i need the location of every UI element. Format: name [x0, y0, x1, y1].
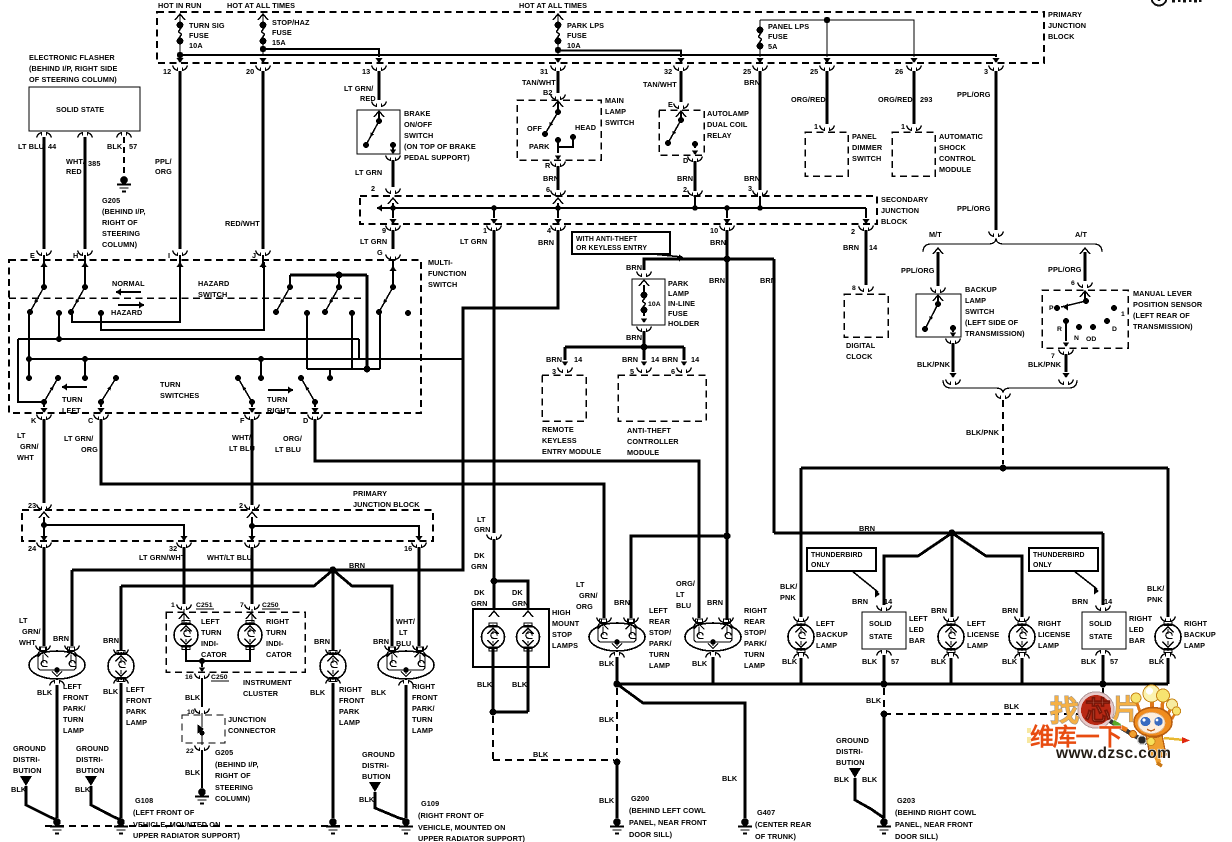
svg-text:BRN: BRN: [859, 524, 875, 533]
svg-text:10A: 10A: [567, 41, 581, 50]
secondary junction block: [360, 196, 877, 224]
svg-text:TURN: TURN: [412, 715, 433, 724]
svg-text:GRN/: GRN/: [579, 591, 598, 600]
svg-text:HOLDER: HOLDER: [668, 319, 700, 328]
svg-text:LAMPS: LAMPS: [552, 641, 578, 650]
instrument cluster box: [177, 605, 192, 610]
wire BRN 4 / park feed: [72, 230, 558, 570]
svg-text:GRN/: GRN/: [22, 627, 41, 636]
svg-text:A/T: A/T: [1075, 230, 1087, 239]
svg-text:RIGHT: RIGHT: [1184, 619, 1208, 628]
svg-text:BLK: BLK: [75, 785, 91, 794]
svg-text:UPPER RADIATOR SUPPORT): UPPER RADIATOR SUPPORT): [418, 834, 526, 842]
svg-text:BRN: BRN: [677, 174, 693, 183]
svg-text:6: 6: [1071, 280, 1075, 287]
svg-text:BRN: BRN: [614, 598, 630, 607]
hazard switch arms: [43, 266, 45, 287]
right turn indicator lamp: [251, 609, 253, 623]
svg-text:GRN: GRN: [512, 599, 529, 608]
svg-text:RIGHT: RIGHT: [267, 406, 291, 415]
svg-text:BRN: BRN: [622, 355, 638, 364]
BRN diagonal to left front park: [121, 570, 333, 586]
svg-text:WHT/: WHT/: [232, 433, 251, 442]
manual lever position sensor: [1042, 290, 1128, 348]
svg-text:TAN/WHT: TAN/WHT: [643, 80, 677, 89]
svg-text:ORG: ORG: [155, 167, 172, 176]
pins E H I J into switch: [37, 251, 52, 256]
wire BLK cluster to junction connector: [201, 678, 203, 707]
svg-text:BUTION: BUTION: [362, 772, 391, 781]
svg-text:CONTROLLER: CONTROLLER: [627, 437, 679, 446]
svg-text:RED/WHT: RED/WHT: [225, 219, 260, 228]
svg-text:R: R: [1057, 326, 1062, 333]
svg-text:BLU: BLU: [676, 601, 691, 610]
svg-text:BRN: BRN: [626, 333, 642, 342]
svg-text:2: 2: [851, 227, 855, 236]
svg-text:ORG: ORG: [81, 445, 98, 454]
junction bottom exits: [392, 208, 394, 218]
svg-text:LT BLU: LT BLU: [275, 445, 301, 454]
svg-text:PPL/ORG: PPL/ORG: [901, 266, 935, 275]
wire ORG/LT BLU D to right rear lamp: [315, 419, 699, 618]
automatic shock control module: [892, 132, 935, 176]
wire BRN to left rear lamp: [631, 536, 727, 618]
svg-text:PANEL: PANEL: [852, 132, 877, 141]
svg-text:AUTOMATIC: AUTOMATIC: [939, 132, 984, 141]
svg-text:BRN: BRN: [543, 174, 559, 183]
svg-text:BRN: BRN: [931, 606, 947, 615]
svg-text:PPL/ORG: PPL/ORG: [1048, 265, 1082, 274]
watermark small stamp top right: [1152, 0, 1202, 6]
svg-text:G: G: [377, 248, 383, 257]
svg-text:LT: LT: [17, 431, 26, 440]
junction top stubs: [388, 198, 398, 204]
svg-text:BRN: BRN: [103, 636, 119, 645]
svg-text:TURN: TURN: [201, 628, 222, 637]
svg-text:RED: RED: [66, 167, 82, 176]
svg-text:ONLY: ONLY: [1033, 562, 1052, 569]
svg-text:G200: G200: [631, 794, 649, 803]
svg-text:LED: LED: [909, 625, 924, 634]
svg-text:C250: C250: [262, 602, 279, 609]
svg-text:RIGHT: RIGHT: [339, 685, 363, 694]
svg-text:DK: DK: [474, 588, 485, 597]
svg-text:GROUND: GROUND: [13, 744, 46, 753]
svg-text:BLK: BLK: [185, 693, 201, 702]
wire mesh inside switch: [72, 262, 180, 322]
left backup lamp: [794, 617, 809, 622]
svg-text:ANTI-THEFT: ANTI-THEFT: [627, 426, 671, 435]
svg-text:PARK: PARK: [126, 707, 147, 716]
svg-text:OF TRUNK): OF TRUNK): [755, 832, 796, 841]
BRN diagonal to right front park/turn: [333, 570, 392, 646]
anti-theft controller module: [618, 375, 706, 421]
svg-text:BLK: BLK: [862, 657, 878, 666]
wire LT BLU 44 flasher to E: [43, 137, 46, 249]
svg-text:LT GRN/: LT GRN/: [64, 434, 93, 443]
svg-text:BRN: BRN: [538, 238, 554, 247]
svg-text:GROUND: GROUND: [836, 736, 869, 745]
wire bus A stop/haz to 13: [263, 49, 379, 57]
svg-text:BLK: BLK: [599, 715, 615, 724]
svg-text:25: 25: [810, 67, 818, 76]
svg-text:44: 44: [48, 142, 57, 151]
svg-text:TURN: TURN: [267, 395, 288, 404]
svg-text:BLK: BLK: [103, 687, 119, 696]
svg-text:MULTI-: MULTI-: [428, 258, 453, 267]
svg-text:10A: 10A: [648, 301, 661, 308]
svg-text:PARK/: PARK/: [744, 639, 767, 648]
svg-text:6: 6: [671, 367, 675, 376]
svg-text:3: 3: [984, 67, 988, 76]
svg-text:D: D: [1112, 326, 1117, 333]
svg-text:BLK: BLK: [107, 142, 123, 151]
svg-text:LAMP: LAMP: [339, 718, 360, 727]
svg-text:LEFT: LEFT: [63, 682, 82, 691]
svg-text:ORG/RED: ORG/RED: [878, 95, 913, 104]
svg-text:DISTRI-: DISTRI-: [13, 755, 41, 764]
wire TAN/WHT 31 to main lamp switch: [557, 71, 560, 93]
svg-text:BLK/: BLK/: [780, 582, 797, 591]
autolamp dual coil relay K1: [659, 110, 704, 155]
svg-text:ORG: ORG: [576, 602, 593, 611]
svg-text:CATOR: CATOR: [266, 650, 292, 659]
svg-text:BLK: BLK: [1002, 657, 1018, 666]
svg-text:K: K: [31, 416, 37, 425]
fuse F1 TURN SIG 10A: [175, 14, 185, 20]
svg-text:15A: 15A: [272, 38, 286, 47]
multi-function switch box: [9, 260, 421, 413]
svg-text:BLK: BLK: [599, 659, 615, 668]
svg-text:BRN: BRN: [1002, 606, 1018, 615]
svg-text:LT: LT: [477, 515, 486, 524]
svg-text:WHT: WHT: [19, 638, 36, 647]
svg-text:(CENTER REAR: (CENTER REAR: [755, 820, 812, 829]
wire RED/WHT 20 to J: [262, 71, 265, 249]
svg-text:LICENSE: LICENSE: [1038, 630, 1070, 639]
svg-text:CONNECTOR: CONNECTOR: [228, 726, 276, 735]
svg-text:BRN: BRN: [707, 598, 723, 607]
svg-text:BUTION: BUTION: [76, 766, 105, 775]
svg-text:BLK/PNK: BLK/PNK: [966, 428, 1000, 437]
svg-text:STATE: STATE: [869, 632, 892, 641]
svg-text:芯: 芯: [1085, 696, 1111, 726]
svg-text:STATE: STATE: [1089, 632, 1112, 641]
svg-text:(BEHIND I/P,: (BEHIND I/P,: [102, 207, 146, 216]
svg-text:31: 31: [540, 67, 548, 76]
svg-text:SECONDARY: SECONDARY: [881, 195, 928, 204]
svg-text:AUTOLAMP: AUTOLAMP: [707, 109, 749, 118]
wire WHT/LT BLU 16 to right front park/turn lamp: [418, 547, 421, 646]
svg-text:DISTRI-: DISTRI-: [836, 747, 864, 756]
wire BLK to G108: [56, 685, 59, 818]
svg-text:WHT: WHT: [17, 453, 34, 462]
svg-text:LT GRN/: LT GRN/: [344, 84, 373, 93]
wire bus B turn sig to 3: [180, 55, 996, 57]
svg-text:E: E: [30, 251, 35, 260]
svg-text:PARK: PARK: [668, 279, 689, 288]
svg-text:G407: G407: [757, 808, 775, 817]
svg-text:2: 2: [239, 501, 243, 510]
svg-text:HOT AT ALL TIMES: HOT AT ALL TIMES: [519, 1, 587, 10]
svg-text:14: 14: [869, 243, 878, 252]
brake on/off switch S1: [357, 110, 400, 154]
ground G200: [613, 818, 621, 826]
svg-text:COLUMN): COLUMN): [215, 794, 251, 803]
svg-text:RIGHT: RIGHT: [1129, 614, 1153, 623]
dashed BLK to G203: [883, 688, 885, 710]
svg-text:G205: G205: [215, 748, 233, 757]
svg-text:PARK/: PARK/: [63, 704, 86, 713]
svg-text:PNK: PNK: [780, 593, 796, 602]
svg-text:PANEL, NEAR FRONT: PANEL, NEAR FRONT: [895, 820, 973, 829]
svg-text:REAR: REAR: [649, 617, 671, 626]
svg-text:ON/OFF: ON/OFF: [404, 120, 433, 129]
turn left C switch: [98, 399, 104, 405]
svg-text:BLK/PNK: BLK/PNK: [1028, 360, 1062, 369]
connector pins row under junction block: [173, 66, 188, 71]
svg-text:SWITCH: SWITCH: [428, 280, 457, 289]
ground G407: [741, 818, 749, 826]
BRN branch left solid state: [884, 533, 952, 605]
wire bus park lps to 32: [558, 51, 681, 58]
wire LT GRN 9 to multifunction G: [392, 230, 395, 249]
svg-text:P: P: [1049, 305, 1054, 312]
svg-text:GRN: GRN: [471, 562, 488, 571]
left rear lamp BLK riser: [616, 657, 619, 684]
svg-text:VEHICLE, MOUNTED ON: VEHICLE, MOUNTED ON: [418, 823, 505, 832]
svg-text:LEFT: LEFT: [816, 619, 835, 628]
svg-text:TRANSMISSION): TRANSMISSION): [965, 329, 1025, 338]
svg-text:RIGHT OF: RIGHT OF: [215, 771, 251, 780]
svg-text:HAZARD: HAZARD: [111, 308, 142, 317]
svg-text:PRIMARY: PRIMARY: [1048, 10, 1082, 19]
svg-text:RIGHT: RIGHT: [412, 682, 436, 691]
svg-text:57: 57: [129, 142, 137, 151]
svg-text:LAMP: LAMP: [63, 726, 84, 735]
svg-text:10A: 10A: [189, 41, 203, 50]
right rear lamp BLK riser: [712, 657, 715, 684]
svg-text:REAR: REAR: [744, 617, 766, 626]
svg-text:PPL/: PPL/: [155, 157, 172, 166]
svg-text:BLK: BLK: [782, 657, 798, 666]
junction block bottom exit arrows: [176, 58, 183, 63]
svg-text:LEFT: LEFT: [62, 406, 81, 415]
svg-text:SWITCH: SWITCH: [605, 118, 634, 127]
remote keyless entry module: [542, 375, 586, 421]
svg-text:FUSE: FUSE: [668, 309, 688, 318]
svg-text:LAMP: LAMP: [605, 107, 626, 116]
svg-text:CONTROL: CONTROL: [939, 154, 976, 163]
svg-text:BRN: BRN: [314, 637, 330, 646]
wire BRN 3 down to rear BRN bus: [773, 259, 776, 533]
svg-text:TURN: TURN: [62, 395, 83, 404]
svg-text:IN-LINE: IN-LINE: [668, 299, 695, 308]
svg-text:BLK: BLK: [477, 680, 493, 689]
svg-text:1: 1: [1121, 311, 1125, 318]
svg-text:DISTRI-: DISTRI-: [362, 761, 390, 770]
svg-text:ORG/RED: ORG/RED: [791, 95, 826, 104]
svg-text:OR KEYLESS ENTRY: OR KEYLESS ENTRY: [576, 245, 647, 252]
svg-text:TURN: TURN: [160, 380, 181, 389]
svg-text:OFF: OFF: [527, 124, 542, 133]
watermark dzsc logo bottom right: [1027, 685, 1190, 766]
svg-text:26: 26: [895, 67, 903, 76]
svg-text:D: D: [683, 156, 688, 165]
svg-text:OF STEERING COLUMN): OF STEERING COLUMN): [29, 75, 117, 84]
wire BLK/PNK from backup switch: [952, 343, 955, 372]
dashed BLK to G200: [492, 716, 494, 760]
wire WHT/LT BLU to instrument cluster 7: [251, 547, 254, 604]
svg-text:JUNCTION: JUNCTION: [881, 206, 919, 215]
svg-text:SWITCH: SWITCH: [965, 307, 994, 316]
svg-text:ORG/: ORG/: [283, 434, 302, 443]
svg-text:14: 14: [884, 597, 893, 606]
wire BRN 14 to digital clock: [865, 230, 868, 285]
svg-text:PPL/ORG: PPL/ORG: [957, 204, 991, 213]
svg-text:G203: G203: [897, 796, 915, 805]
svg-text:FUSE: FUSE: [272, 28, 292, 37]
wire BRN branch to park lamp fuse holder: [644, 259, 774, 270]
solid state flasher box: [29, 87, 140, 131]
svg-text:TURN: TURN: [744, 650, 765, 659]
turn switch arms: [287, 284, 293, 290]
connector below brake switch: [386, 156, 401, 161]
svg-text:I: I: [168, 251, 170, 260]
svg-text:BRN: BRN: [843, 243, 859, 252]
svg-text:N: N: [1074, 335, 1079, 342]
svg-text:WHT/LT BLU: WHT/LT BLU: [207, 553, 252, 562]
svg-text:STOP/HAZ: STOP/HAZ: [272, 18, 310, 27]
svg-text:BRN: BRN: [626, 263, 642, 272]
front ground dashed bus: [45, 825, 407, 827]
panel dimmer switch module: [805, 132, 848, 176]
turn right F switch: [249, 399, 255, 405]
svg-text:TURN SIG: TURN SIG: [189, 21, 225, 30]
svg-text:REMOTE: REMOTE: [542, 425, 574, 434]
svg-text:HAZARD: HAZARD: [198, 279, 229, 288]
svg-text:BLOCK: BLOCK: [1048, 32, 1075, 41]
turn row contacts: [304, 310, 310, 316]
PPL/ORG node split M/T A/T: [989, 232, 1004, 237]
svg-text:www.dzsc.com: www.dzsc.com: [1055, 745, 1171, 762]
svg-text:LAMP: LAMP: [1038, 641, 1059, 650]
svg-text:LEFT: LEFT: [126, 685, 145, 694]
svg-text:HIGH: HIGH: [552, 608, 571, 617]
svg-text:ELECTRONIC FLASHER: ELECTRONIC FLASHER: [29, 53, 115, 62]
svg-text:PARK: PARK: [529, 142, 550, 151]
svg-text:(BEHIND I/P, RIGHT SIDE: (BEHIND I/P, RIGHT SIDE: [29, 64, 118, 73]
svg-text:BRN: BRN: [662, 355, 678, 364]
svg-text:G109: G109: [421, 799, 439, 808]
svg-text:LT GRN: LT GRN: [360, 237, 387, 246]
junction internal bus: [377, 207, 866, 209]
svg-text:MOUNT: MOUNT: [552, 619, 580, 628]
svg-text:14: 14: [574, 355, 583, 364]
wire ORG/RED 293 to shock module: [913, 71, 916, 124]
svg-text:H: H: [73, 251, 78, 260]
svg-text:FUSE: FUSE: [567, 31, 587, 40]
svg-text:STOP: STOP: [552, 630, 572, 639]
fuse F3 PARK LPS 10A: [553, 14, 563, 20]
connector R below main lamp switch: [551, 162, 566, 167]
thunderbird only callout right: [1029, 548, 1098, 571]
svg-text:BLK: BLK: [866, 696, 882, 705]
svg-text:CATOR: CATOR: [201, 650, 227, 659]
svg-text:BLK: BLK: [834, 775, 850, 784]
flasher pins: [37, 133, 52, 138]
svg-text:BRN: BRN: [744, 78, 760, 87]
svg-text:JUNCTION: JUNCTION: [1048, 21, 1086, 30]
svg-text:12: 12: [163, 67, 171, 76]
svg-text:BLK: BLK: [599, 796, 615, 805]
svg-text:DK: DK: [474, 551, 485, 560]
ground G203: [880, 818, 888, 826]
svg-text:RIGHT: RIGHT: [744, 606, 768, 615]
svg-text:LEFT: LEFT: [909, 614, 928, 623]
svg-text:LT BLU: LT BLU: [18, 142, 44, 151]
svg-text:BAR: BAR: [909, 636, 926, 645]
svg-text:BACKUP: BACKUP: [965, 285, 997, 294]
svg-text:GRN: GRN: [471, 599, 488, 608]
svg-text:BRN: BRN: [373, 637, 389, 646]
wire LT GRN brake to junction 2: [392, 160, 395, 187]
svg-text:22: 22: [186, 748, 194, 755]
turn left switch: [41, 399, 47, 405]
svg-text:STEERING: STEERING: [215, 783, 253, 792]
svg-text:LT: LT: [676, 590, 685, 599]
secondary junction bottom pins: [386, 226, 401, 231]
svg-text:GRN/: GRN/: [20, 442, 39, 451]
svg-text:BLK: BLK: [1081, 657, 1097, 666]
svg-text:LEFT: LEFT: [201, 617, 220, 626]
fuse F4 PANEL LPS 5A: [759, 20, 761, 29]
svg-text:BLK: BLK: [722, 774, 738, 783]
ground G109: [402, 818, 410, 826]
wire LT GRN/WHT 24 to left front park/turn lamp: [43, 547, 46, 646]
wire BLK to G108 (2): [120, 683, 123, 818]
svg-text:F: F: [240, 416, 245, 425]
left front park lamp: [114, 650, 129, 655]
svg-text:BACKUP: BACKUP: [1184, 630, 1216, 639]
svg-text:(BEHIND LEFT COWL: (BEHIND LEFT COWL: [629, 806, 706, 815]
svg-text:1: 1: [901, 122, 905, 131]
svg-text:14: 14: [1104, 597, 1113, 606]
svg-text:C250: C250: [211, 674, 228, 681]
svg-text:HEAD: HEAD: [575, 123, 596, 132]
svg-text:8: 8: [852, 285, 856, 292]
with anti-theft callout: [572, 232, 670, 254]
svg-text:POSITION SENSOR: POSITION SENSOR: [1133, 300, 1203, 309]
svg-text:BLK: BLK: [359, 795, 375, 804]
BRN branch left license: [951, 533, 954, 617]
svg-text:PRIMARY: PRIMARY: [353, 489, 387, 498]
svg-text:M/T: M/T: [929, 230, 942, 239]
wire BLK 57 to G205: [123, 137, 125, 176]
svg-text:FRONT: FRONT: [126, 696, 152, 705]
svg-text:JUNCTION: JUNCTION: [228, 715, 266, 724]
svg-text:DIGITAL: DIGITAL: [846, 341, 876, 350]
svg-text:BLK: BLK: [692, 659, 708, 668]
svg-text:FRONT: FRONT: [339, 696, 365, 705]
right front park/turn lamp: [385, 646, 400, 651]
svg-text:C251: C251: [196, 602, 213, 609]
svg-text:PPL/ORG: PPL/ORG: [957, 90, 991, 99]
svg-text:3: 3: [748, 184, 752, 193]
svg-text:CLUSTER: CLUSTER: [243, 689, 279, 698]
svg-text:PARK: PARK: [339, 707, 360, 716]
svg-text:MODULE: MODULE: [627, 448, 659, 457]
